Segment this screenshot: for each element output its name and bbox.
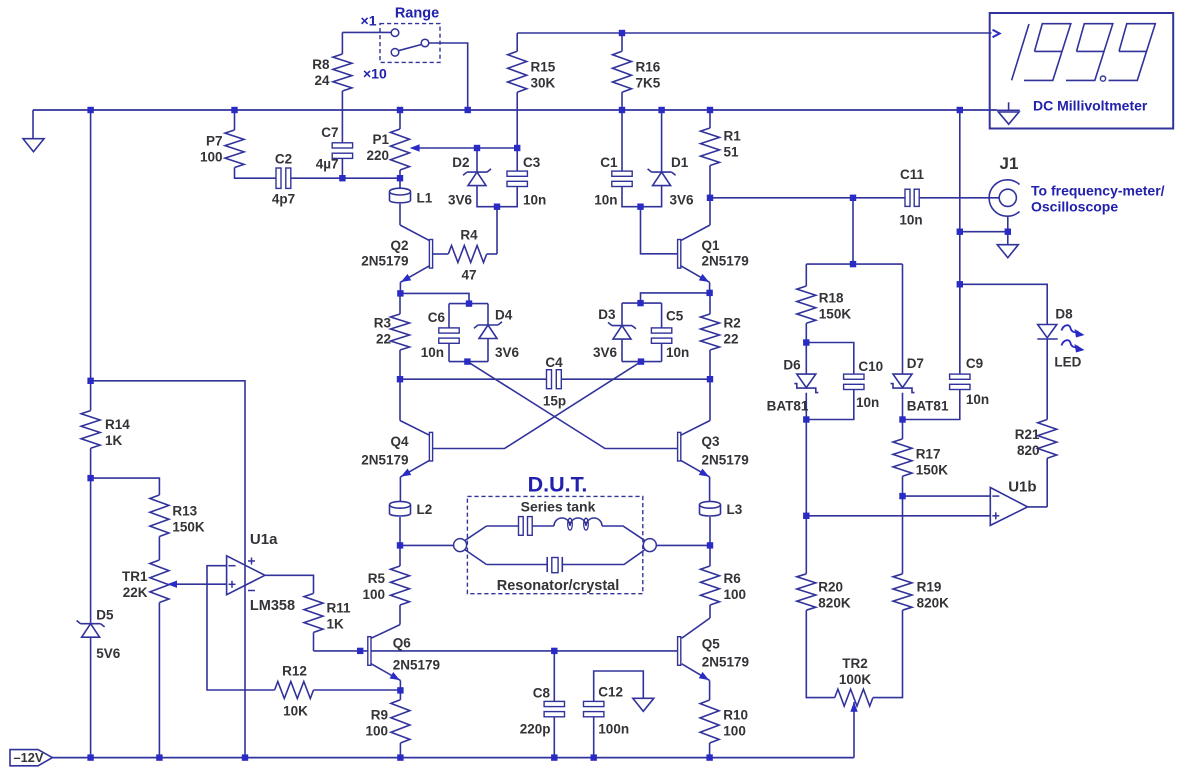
wire: J1 ground rail [960,231,1008,233]
wire: C8 bottom lead [553,717,555,758]
label C2 [275,152,292,167]
meter input chevron [993,30,1000,37]
svg-text:D7: D7 [907,356,924,371]
wire: D5 bottom lead [90,637,92,757]
wire: C10 bottom lead [806,389,854,419]
svg-text:10n: 10n [421,345,444,360]
wire: R3 top lead [399,293,401,314]
label U1b [1008,479,1036,496]
label R15 [531,60,556,91]
resistor R4 [448,246,486,263]
label Series tank [521,499,596,515]
label Resonator/crystal [497,578,620,594]
wire: D4 bottom lead [487,339,489,362]
wire: D8 to R21 [1046,339,1048,420]
svg-text:3V6: 3V6 [670,193,695,208]
label C4 [545,355,563,370]
millivoltmeter box [990,13,1173,129]
node Q2 emitter [397,290,403,296]
wire: R5 top lead [399,545,401,566]
label R4 [460,228,478,243]
LED D8 [1037,325,1084,353]
svg-text:3V6: 3V6 [495,345,520,360]
wire: Q4 emitter drop [399,477,401,502]
label C5 [666,309,684,324]
svg-text:Oscilloscope: Oscilloscope [1031,199,1118,215]
zener D1 3V6 [648,169,676,186]
label D4 [495,308,513,323]
svg-text:C2: C2 [275,152,292,167]
label C11 value [899,213,922,228]
wire: crystal left lead [487,564,548,566]
label To frequency-meter [1031,183,1165,215]
wire: DUT fan left bottom [465,550,487,565]
wire: R20 top lead [805,420,807,574]
node C1-D1/Q1base [637,204,643,210]
DUT right terminal [643,539,656,552]
Q1 emitter arrow [699,274,709,282]
wire: C6 top lead [448,304,450,328]
wire: R4 right lead [487,253,497,255]
DUT dashed box [467,496,642,593]
node bot/C12 [591,754,597,760]
transistor Q5 bar [678,637,681,666]
label L3 [727,502,743,517]
label D4 value [495,345,520,360]
svg-text:10n: 10n [899,213,922,228]
svg-text:To frequency-meter/: To frequency-meter/ [1031,183,1165,199]
node bus/left rail [87,107,93,113]
svg-text:100: 100 [362,587,385,602]
svg-text:10n: 10n [966,392,989,407]
wire: Q1 collector [681,225,710,241]
wire: R20 bottom lead [806,610,834,697]
label Q3 type [702,453,749,468]
wire: R18 top lead [805,264,807,286]
resistor R18 [797,286,816,323]
label C6 value [421,345,444,360]
label P7 [200,134,223,165]
svg-text:Q3: Q3 [702,434,721,449]
wire: TR2 wiper drop [853,711,855,758]
label TR1 [122,569,148,600]
wire: C11 line left [710,197,905,199]
zener D3 3V6 [608,322,636,339]
wire: R11 bottom lead [313,632,315,651]
wire: D4 top lead [487,304,489,325]
wire: Q6 emitter drop [399,680,401,690]
label C5 value [666,345,689,360]
label Q6 type [393,658,440,673]
label R10 [723,708,748,739]
label x1 [361,12,377,28]
svg-text:×1: ×1 [361,12,377,28]
node C6-D4 bottom [464,358,470,364]
node L3/DUT [707,542,713,548]
svg-text:Series tank: Series tank [521,499,596,515]
wire: C6/D4 top rail [449,303,488,305]
resistor P7 [225,130,244,168]
wire: right column drop [959,110,961,374]
resistor R5 [391,566,410,605]
potentiometer TR2 [835,689,873,706]
capacitor C8 [544,701,564,716]
wire: L3 bottom lead [709,517,711,545]
svg-text:2N5179: 2N5179 [702,254,749,269]
resistor R12 [275,682,314,699]
svg-text:30K: 30K [531,76,556,91]
capacitor C6 [439,328,459,343]
label Range [395,6,439,22]
svg-text:U1a: U1a [250,531,278,548]
wire: C12 bottom lead [593,717,595,758]
node D6/C10 [803,416,809,422]
capacitor C10 [844,374,864,389]
label R18 [819,291,852,322]
wire: Q2 emitter to C6/D4 [400,293,469,303]
label TR2 [839,656,872,687]
wire: Q5 collector [682,618,710,638]
wire: R17 bottom lead [902,476,904,496]
schottky D6 BAT81 [794,374,818,393]
meter ground symbol [997,102,1020,124]
svg-text:D4: D4 [495,308,513,323]
label D1 [671,155,689,170]
node wiper/D2 [474,145,480,151]
label L1 [417,191,433,206]
wire: R16 bottom lead [621,92,623,110]
wire: R11 base branch [314,650,368,652]
wire: R15 bottom lead [516,92,518,148]
wire: cross couple left [467,362,678,449]
svg-text:C9: C9 [966,356,983,371]
svg-text:R9: R9 [371,708,388,723]
potentiometer TR1 [150,560,169,603]
DUT left terminal [454,539,467,552]
svg-text:R8: R8 [312,57,330,72]
meter digit 9 second [1066,24,1113,81]
svg-text:R4: R4 [460,228,478,243]
label R8 [312,57,330,88]
wire: P1 top lead [399,110,401,129]
svg-text:TR2: TR2 [842,656,868,671]
wire: Q1 emitter to D3/C5 [641,293,710,303]
node U1b+ rail [803,513,809,519]
svg-text:10n: 10n [523,193,546,208]
node R18/C10 [803,339,809,345]
capacitor C4 [547,370,562,389]
ground J1 [997,245,1018,258]
wire: Q3 emitter drop [709,477,711,502]
wire: R18 bottom lead [805,323,807,342]
node bot/C8 [551,754,557,760]
label Q4 [390,434,409,449]
wire: D3/C5 top rail [622,302,662,304]
wire: C7 bottom lead [341,158,343,178]
P1 wiper arrow [410,144,420,151]
resistor R15 [508,51,527,92]
wire: C3 top lead [516,148,518,171]
wire: R21 bottom lead [1046,458,1048,507]
wire: R19 bottom lead [873,610,903,697]
node D8 feed [957,281,963,287]
wire: Q5 emitter drop [709,680,711,700]
svg-text:C4: C4 [545,355,563,370]
wire: P1 bottom lead [399,170,401,178]
label C8 value [520,722,551,737]
svg-text:D3: D3 [598,307,616,322]
svg-text:2N5179: 2N5179 [361,453,408,468]
potentiometer P1 [391,129,410,170]
wire: opamp V+ feed [91,381,245,758]
Q2 emitter arrow [401,274,411,282]
wire: C1 top lead [621,110,623,171]
svg-text:10n: 10n [666,345,689,360]
wire: left ground drop [32,110,34,139]
zener D4 3V6 [474,322,502,339]
label D2 [452,155,469,170]
Q3 emitter arrow [699,469,709,477]
wire: R14 bottom lead [90,448,92,478]
label R11 [327,601,352,632]
svg-text:R20: R20 [818,580,843,595]
wire: base rail Q6-Q5 [368,650,678,652]
svg-text:R21: R21 [1015,427,1040,442]
label L2 [417,502,433,517]
label D5 [96,608,114,623]
wire: R10 bottom lead [709,743,711,758]
wire: Q3 collector [681,421,710,436]
svg-text:P1: P1 [372,132,389,147]
svg-text:22K: 22K [123,585,148,600]
node J1 gnd stub [1005,229,1011,235]
svg-text:2N5179: 2N5179 [702,453,749,468]
node R18-D7 rail [850,261,856,267]
wire: D3/C5 bottom rail [622,361,662,363]
svg-text:TR1: TR1 [122,569,148,584]
wire: C2 to P1 node [291,177,400,179]
svg-text:DC Millivoltmeter: DC Millivoltmeter [1033,98,1148,114]
wire: R14 top lead [90,381,92,411]
svg-text:R2: R2 [724,316,741,331]
wire: TR1 bottom lead [158,603,160,758]
wire: tank mid lead [532,525,554,527]
wire: R19 top lead [902,496,904,574]
wire: R1 top lead [709,110,711,128]
svg-text:L2: L2 [417,502,433,517]
wire: D2 top lead [476,148,478,172]
node P1/L1 [397,175,403,181]
wire: R9 bottom lead [399,743,401,758]
label R20 [818,580,851,611]
zener D2 3V6 [463,169,491,186]
wire: -12V bottom rail [52,757,854,759]
switch contact x10 [391,49,399,57]
label R14 [105,417,130,448]
capacitor C9 [950,374,970,389]
svg-text:Q6: Q6 [393,636,412,651]
transistor Q1 bar [678,240,681,269]
wire: D7 bottom lead [902,393,904,420]
node R2/C4 [707,376,713,382]
svg-text:D5: D5 [96,608,114,623]
wire: Q4 emitter [400,460,429,477]
ground C12 [633,698,654,711]
node bus/P7 [231,107,237,113]
label LM358 [250,598,295,614]
wire: U1b output [1028,506,1048,508]
node V+ branch [87,378,93,384]
svg-text:100: 100 [200,150,223,165]
wire: C10 top lead [806,343,854,375]
Q6 emitter arrow [390,672,400,680]
wire: C1 bottom lead [622,187,641,207]
node bus/R16-C1 [619,107,625,113]
node D7/C9 [899,416,905,422]
node U1b- rail [899,493,905,499]
svg-text:C10: C10 [858,359,883,374]
svg-text:C5: C5 [666,309,684,324]
wire: C11 line right [919,197,999,199]
label DUT [528,473,588,497]
resistor R10 [700,700,719,743]
svg-text:D.U.T.: D.U.T. [528,473,588,497]
label R12 [282,664,307,679]
svg-text:3V6: 3V6 [593,345,618,360]
wire: L1 top lead [399,178,401,188]
label Q2 [390,238,408,253]
wire: R18-D7 top rail [806,263,902,265]
svg-text:D2: D2 [452,155,469,170]
wire: switch lever [399,45,422,51]
wire: P7 to C2 [235,168,277,179]
label C2 value [272,192,295,207]
wire: R4 to D2/C3 node [496,207,498,254]
svg-text:–12V: –12V [14,750,44,765]
svg-text:J1: J1 [1000,154,1019,173]
wire: R13 branch [91,478,160,495]
node D2-C3/R4 [494,204,500,210]
svg-text:R5: R5 [368,571,386,586]
wire: U1b- line [903,495,991,497]
wire: C4 right line [562,378,711,380]
wire: Q3 emitter [681,460,710,477]
wire: R1 bottom lead [709,166,711,198]
wire: Q5 emitter [682,664,710,681]
svg-text:C6: C6 [428,310,446,325]
wire: R2 bottom lead [709,350,711,379]
svg-text:L3: L3 [727,502,743,517]
node Q6 emitter/R12 [397,687,403,693]
wire: C5 top lead [661,303,663,328]
label R6 [724,571,747,602]
meter digit 1 [1012,24,1029,80]
svg-text:22: 22 [376,332,391,347]
svg-text:100: 100 [365,724,388,739]
wire: DUT to L3 node [656,544,710,546]
label Q2 type [361,254,408,269]
wire: crystal right lead [562,550,644,565]
node R3/C4 [397,376,403,382]
wire: D3 bottom lead [621,339,623,362]
meter digit 9 third [1109,24,1156,81]
label Q4 type [361,453,408,468]
svg-text:C1: C1 [600,155,618,170]
svg-text:×10: ×10 [363,66,387,82]
node bus/right column [957,107,963,113]
resistor R17 [893,439,912,476]
wire: D1 top lead [661,110,663,172]
wire: D8 feed [960,284,1047,324]
resistor R16 [613,51,632,92]
label R19 [917,580,950,611]
node bus/P1 [397,107,403,113]
wire: U1a output [265,575,314,593]
wire: Q2 emitter [400,266,429,283]
DUT resonator crystal [547,557,562,573]
label C6 [428,310,446,325]
svg-text:4µ7: 4µ7 [316,157,339,172]
svg-text:LM358: LM358 [250,598,295,614]
capacitor C7 [332,143,352,159]
svg-text:24: 24 [314,73,330,88]
label -12V [14,750,44,765]
switch pole [421,39,429,47]
label C3 [523,155,541,170]
wire: C9 top lead [959,284,961,374]
svg-text:C11: C11 [900,167,925,182]
capacitor C2 [276,168,291,188]
label R4 value [461,268,476,283]
wire: C12 top lead [594,671,644,701]
wire: ground bus top rail [33,109,997,111]
svg-text:R3: R3 [374,316,392,331]
svg-text:L1: L1 [417,191,433,206]
resistor R21 [1038,420,1057,459]
svg-text:7K5: 7K5 [636,76,661,91]
wire: Q1 emitter drop [709,282,711,293]
svg-text:R16: R16 [636,60,661,75]
label C10 value [856,395,879,410]
label R17 [916,447,949,478]
wire: x1 contact to R8 [342,31,391,33]
wire: Q1 emitter [681,266,710,283]
inductor L3 [700,501,721,516]
op-amp U1a [227,556,265,595]
label DC Millivoltmeter [1033,98,1148,114]
svg-text:LED: LED [1054,355,1081,370]
resistor R2 [701,314,720,350]
resistor R14 [81,411,100,449]
svg-text:100: 100 [723,724,746,739]
label R2 [724,316,741,347]
svg-text:10n: 10n [856,395,879,410]
wire: C6/D4 bottom rail [449,361,488,363]
transistor Q3 bar [678,432,681,461]
svg-text:220: 220 [366,148,389,163]
wire: comparator rail drop [852,198,854,264]
svg-text:100n: 100n [598,722,629,737]
wire: R2 to Q3 collector [709,379,711,420]
label C4 value [543,394,566,409]
label D2 value [448,193,473,208]
wire: left rail drop [90,110,92,381]
op-amp U1b [990,488,1027,526]
Q4 emitter arrow [401,469,411,477]
node bus/D1 [658,107,664,113]
wire: C5 bottom lead [661,343,663,361]
svg-text:R14: R14 [105,417,130,432]
